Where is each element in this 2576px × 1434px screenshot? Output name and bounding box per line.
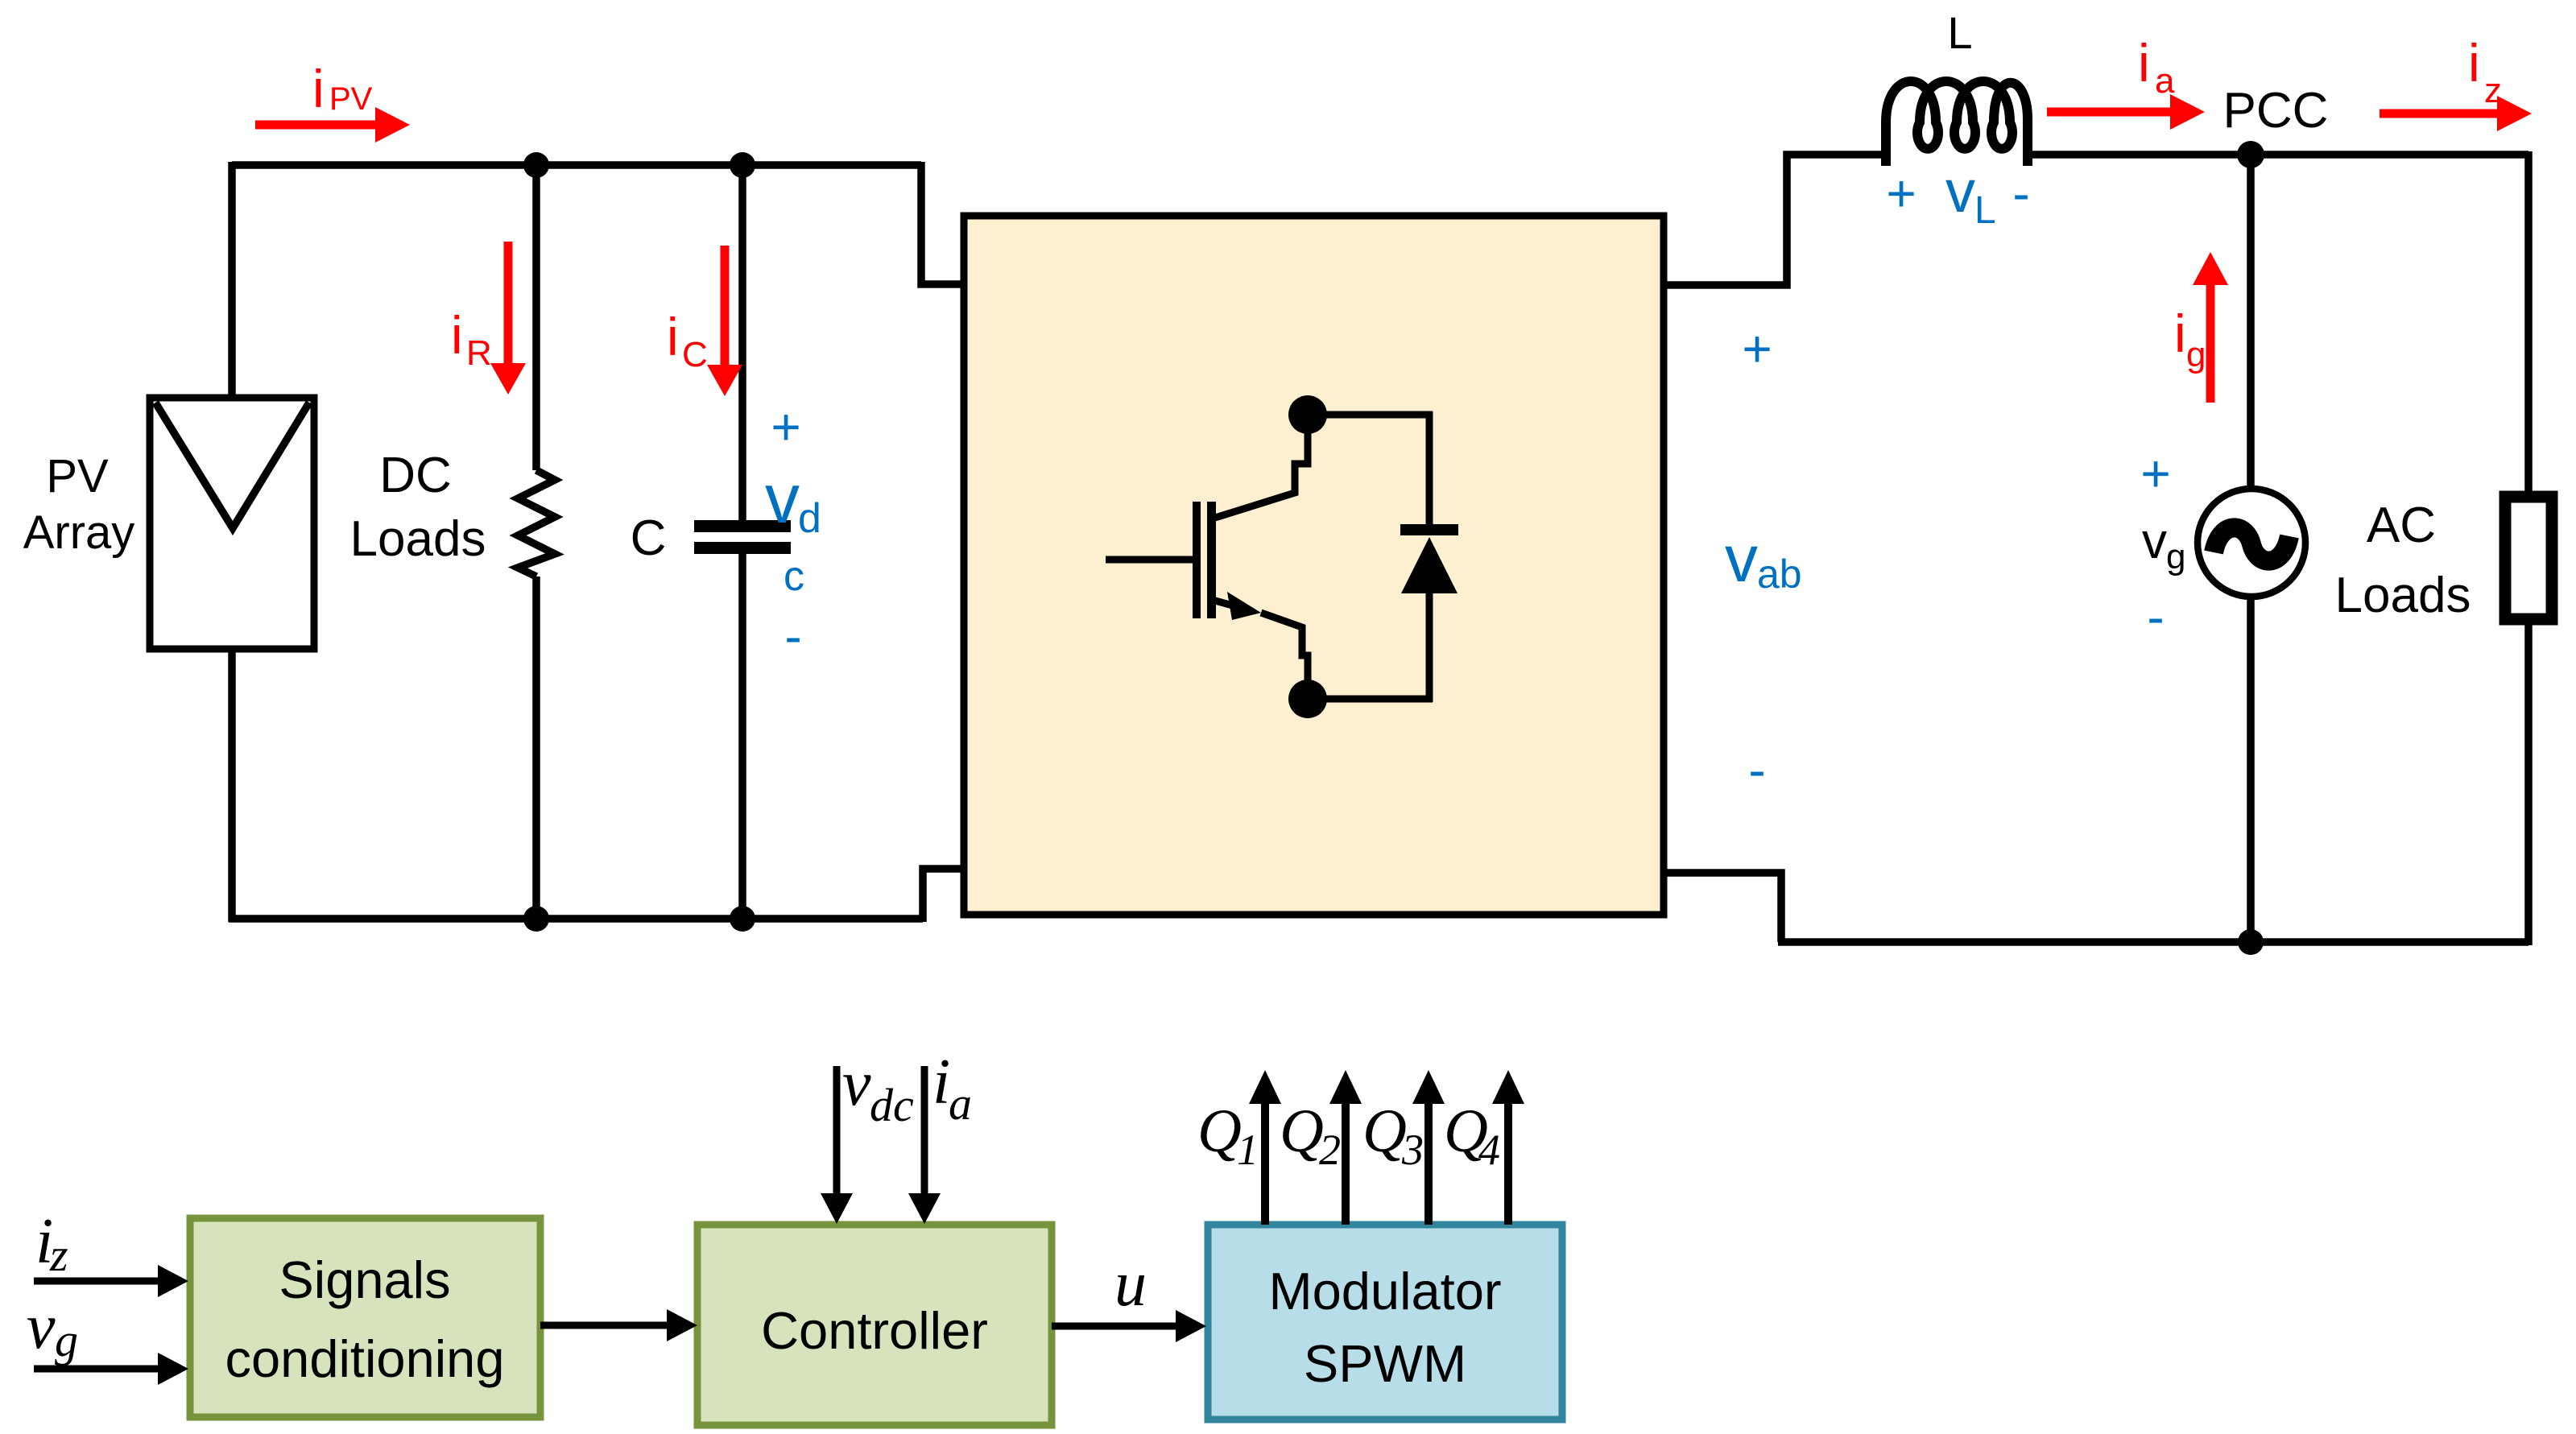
svg-text:Loads: Loads (350, 511, 486, 567)
svg-text:1: 1 (1237, 1126, 1259, 1174)
svg-text:+: + (1742, 320, 1772, 378)
svg-text:c: c (784, 553, 804, 600)
svg-text:i: i (451, 305, 463, 365)
arrow: ia into controller (908, 1066, 941, 1224)
node: top junction DC loads (523, 152, 549, 178)
IGBT bottom terminal dot (1288, 680, 1327, 718)
svg-text:+: + (2140, 444, 2170, 502)
svg-text:i: i (312, 59, 325, 118)
node: bottom junction capacitor (730, 906, 755, 932)
svg-text:C: C (682, 335, 708, 374)
arrow: iz input (34, 1265, 188, 1297)
svg-text:AC: AC (2367, 498, 2436, 553)
svg-text:-: - (2012, 164, 2029, 222)
current arrow iR (490, 242, 526, 395)
svg-text:dc: dc (870, 1079, 914, 1131)
wire: AC top rail (2028, 151, 2528, 159)
current arrow ig (2193, 252, 2228, 403)
arrow: Q1 (1249, 1070, 1281, 1225)
PV array symbol (150, 398, 314, 649)
diode D (1426, 411, 1433, 527)
svg-text:Signals: Signals (279, 1250, 450, 1309)
current arrow ia (2047, 94, 2205, 130)
arrow: vdc into controller (821, 1066, 853, 1224)
svg-text:i: i (2138, 33, 2150, 93)
wire: DC bottom rail (229, 915, 923, 923)
wire: inverter right top exit (1664, 155, 1886, 285)
current arrow iz (2380, 96, 2532, 131)
IGBT body bar (1207, 502, 1216, 618)
svg-text:-: - (2147, 588, 2164, 646)
arrow: u controller to modulator (1052, 1310, 1206, 1342)
svg-text:R: R (466, 333, 492, 373)
svg-text:2: 2 (1319, 1126, 1341, 1174)
wire: PCC to grid source (2247, 155, 2255, 490)
svg-text:3: 3 (1401, 1126, 1424, 1174)
svg-text:-: - (1748, 741, 1765, 799)
svg-text:g: g (55, 1314, 78, 1366)
wire: inverter right bottom exit (1664, 873, 1781, 942)
wire: PV negative lead (228, 649, 236, 922)
svg-text:Q: Q (1197, 1097, 1242, 1165)
current arrow iC (707, 246, 742, 396)
svg-text:Loads: Loads (2335, 568, 2471, 623)
svg-text:Controller: Controller (761, 1301, 988, 1360)
block: modulator SPWM (1208, 1225, 1562, 1420)
svg-text:PV: PV (46, 450, 109, 502)
wire: DC top step into inverter (921, 162, 964, 284)
svg-text:+: + (771, 398, 800, 456)
svg-text:ab: ab (1757, 552, 1802, 597)
node: bottom junction grid (2238, 929, 2264, 955)
svg-text:C: C (631, 510, 667, 566)
svg-text:Q: Q (1280, 1097, 1324, 1165)
svg-text:g: g (2166, 537, 2185, 576)
svg-text:i: i (2174, 304, 2186, 363)
svg-text:L: L (1947, 7, 1972, 58)
svg-text:Modulator: Modulator (1268, 1262, 1501, 1320)
svg-text:4: 4 (1478, 1126, 1500, 1174)
IGBT collector path (1215, 433, 1308, 518)
wire: PV positive lead (228, 162, 236, 398)
wire: grid source to bottom rail (2247, 595, 2255, 942)
node: PCC junction (2237, 141, 2264, 168)
IGBT top terminal dot (1288, 395, 1327, 434)
IGBT gate lead (1106, 556, 1193, 564)
AC source vg (2198, 489, 2305, 597)
node: top junction capacitor (730, 152, 755, 178)
svg-text:+: + (1886, 164, 1916, 222)
wire: DC top rail (232, 161, 921, 169)
svg-text:DC: DC (379, 448, 452, 503)
block: controller (697, 1225, 1052, 1425)
svg-text:v: v (27, 1291, 56, 1362)
arrow: signals to controller (540, 1309, 697, 1341)
svg-text:-: - (784, 607, 801, 665)
inverter block U1 (964, 216, 1664, 915)
arrow: Q4 (1492, 1070, 1524, 1225)
svg-text:i: i (932, 1047, 950, 1118)
svg-text:PCC: PCC (2223, 83, 2329, 138)
svg-text:u: u (1114, 1249, 1147, 1320)
IGBT Q inside inverter (1106, 395, 1458, 718)
svg-text:SPWM: SPWM (1304, 1334, 1466, 1393)
block: signals conditioning (190, 1218, 540, 1417)
arrow: vg input (34, 1353, 188, 1385)
resistor R (DC loads) (518, 165, 555, 919)
IGBT bottom wire to diode (1325, 696, 1433, 703)
inductor L (1886, 81, 2028, 166)
svg-text:d: d (798, 495, 821, 542)
AC loads branch wire bottom (2524, 623, 2533, 945)
IGBT top wire to diode (1325, 411, 1433, 419)
wire: AC bottom rail (1778, 938, 2528, 946)
IGBT emitter path (1215, 601, 1238, 607)
arrow: Q2 (1329, 1070, 1362, 1225)
svg-text:L: L (1974, 189, 1996, 232)
svg-text:i: i (2468, 33, 2480, 93)
AC loads impedance (2505, 497, 2552, 619)
svg-text:a: a (2155, 61, 2175, 101)
wire: DC bottom step into inverter (923, 869, 964, 922)
AC loads branch wire top (2524, 151, 2533, 493)
node: bottom junction DC loads (523, 906, 549, 932)
IGBT gate bar (1193, 502, 1201, 618)
svg-text:i: i (667, 307, 679, 366)
svg-text:Array: Array (23, 506, 135, 559)
svg-text:z: z (49, 1229, 68, 1281)
svg-text:v: v (2142, 514, 2167, 569)
current arrow iPV (255, 107, 410, 143)
svg-text:v: v (765, 461, 800, 538)
svg-text:a: a (949, 1077, 972, 1130)
capacitor C (694, 165, 791, 919)
svg-text:v: v (842, 1048, 871, 1119)
svg-text:conditioning: conditioning (225, 1329, 505, 1388)
svg-text:Q: Q (1362, 1097, 1407, 1165)
svg-text:PV: PV (329, 81, 373, 117)
svg-text:v: v (1725, 523, 1758, 596)
svg-text:v: v (1945, 158, 1975, 225)
svg-text:z: z (2484, 71, 2502, 110)
arrow: Q3 (1412, 1070, 1445, 1225)
svg-text:g: g (2186, 335, 2206, 374)
